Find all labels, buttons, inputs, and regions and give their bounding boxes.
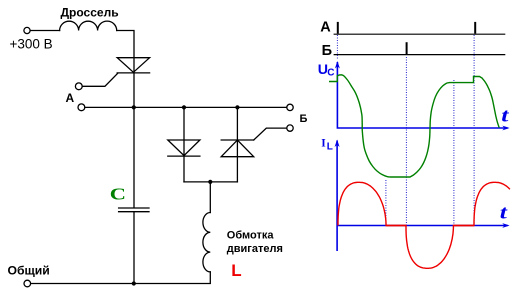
svg-text:I: I — [321, 138, 326, 150]
svg-text:L: L — [231, 261, 241, 280]
svg-text:двигателя: двигателя — [227, 243, 283, 255]
svg-text:А: А — [66, 91, 75, 105]
svg-text:Дроссель: Дроссель — [61, 6, 119, 20]
svg-text:С: С — [110, 185, 126, 204]
svg-text:L: L — [327, 141, 333, 152]
svg-text:Обмотка: Обмотка — [227, 230, 275, 242]
svg-text:C: C — [327, 67, 334, 78]
svg-text:t: t — [500, 202, 508, 223]
svg-text:Б: Б — [300, 113, 308, 125]
svg-text:Б: Б — [322, 43, 332, 59]
svg-text:А: А — [320, 20, 331, 36]
svg-text:+300 В: +300 В — [10, 37, 53, 52]
svg-text:t: t — [501, 105, 509, 126]
svg-text:Общий: Общий — [8, 264, 50, 278]
